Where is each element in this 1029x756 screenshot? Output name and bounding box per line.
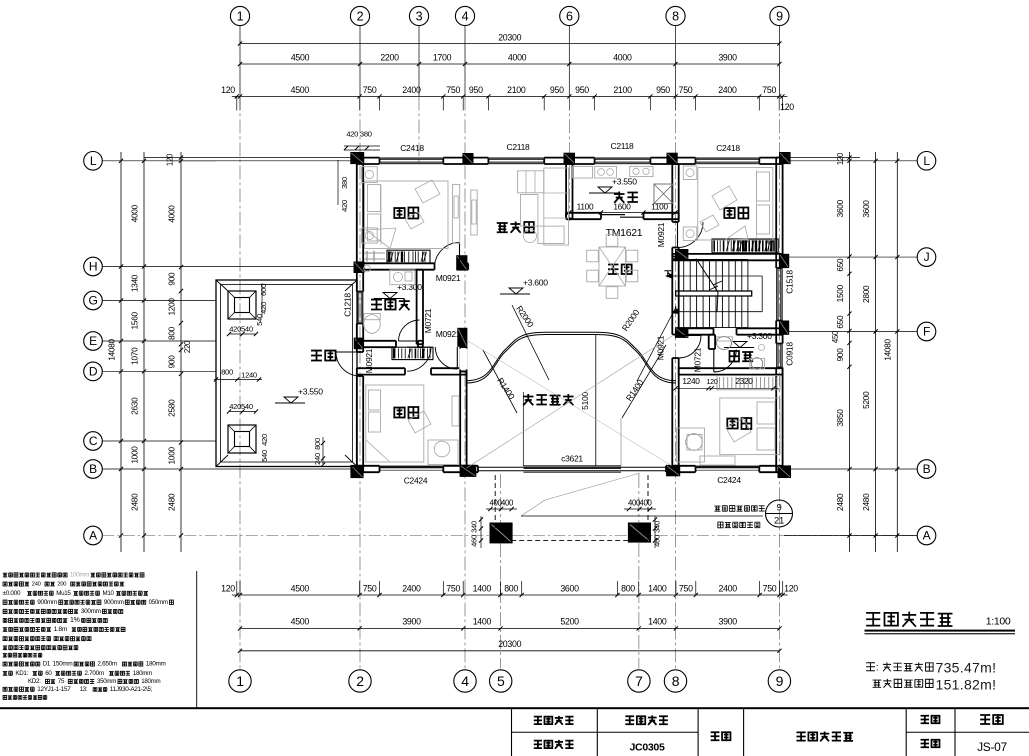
svg-text:1%: 1% xyxy=(70,617,80,624)
svg-text:220: 220 xyxy=(183,340,192,353)
svg-text:380: 380 xyxy=(340,177,349,189)
svg-text:c3621: c3621 xyxy=(561,454,583,464)
svg-text:A: A xyxy=(923,529,931,543)
svg-text:2.700m: 2.700m xyxy=(84,670,104,677)
svg-text:14080: 14080 xyxy=(107,339,117,361)
svg-text:420: 420 xyxy=(260,434,269,446)
svg-text:4000: 4000 xyxy=(613,53,632,63)
svg-text:240: 240 xyxy=(32,582,41,588)
svg-text:M0721: M0721 xyxy=(693,347,703,372)
svg-text:4: 4 xyxy=(461,673,469,689)
svg-text:2580: 2580 xyxy=(167,399,177,417)
svg-text:460: 460 xyxy=(470,535,479,547)
svg-text:400: 400 xyxy=(501,499,514,508)
svg-text:4000: 4000 xyxy=(508,53,527,63)
svg-text:B: B xyxy=(89,462,97,476)
svg-text:M0921: M0921 xyxy=(364,348,374,373)
svg-text:2100: 2100 xyxy=(613,85,632,95)
svg-text:150mm: 150mm xyxy=(53,661,73,668)
svg-text:4500: 4500 xyxy=(291,85,310,95)
svg-text:1400: 1400 xyxy=(648,617,667,627)
svg-text:1500: 1500 xyxy=(835,284,845,302)
svg-text:KD1:: KD1: xyxy=(15,670,28,677)
svg-text:300mm: 300mm xyxy=(81,608,101,615)
svg-text:1100: 1100 xyxy=(577,202,594,212)
svg-text:120: 120 xyxy=(221,85,235,95)
svg-text:1:100: 1:100 xyxy=(986,616,1011,628)
svg-text:800: 800 xyxy=(221,368,233,377)
svg-text:8: 8 xyxy=(672,9,679,23)
svg-text:C: C xyxy=(89,434,98,448)
svg-text:C0918: C0918 xyxy=(785,342,795,366)
svg-text:1600: 1600 xyxy=(613,202,631,212)
svg-text:2480: 2480 xyxy=(167,493,177,511)
svg-text:2.650m: 2.650m xyxy=(97,661,117,668)
svg-text:C2418: C2418 xyxy=(716,143,740,153)
svg-text:60: 60 xyxy=(45,670,52,677)
svg-text:120: 120 xyxy=(836,152,845,165)
svg-text:C2424: C2424 xyxy=(717,475,741,485)
svg-text:TM1621: TM1621 xyxy=(606,227,643,239)
svg-text:D: D xyxy=(89,365,98,379)
svg-text:735.47m!: 735.47m! xyxy=(936,660,997,676)
svg-text:750: 750 xyxy=(446,584,460,594)
svg-text:3600: 3600 xyxy=(835,199,845,217)
svg-text:650: 650 xyxy=(835,315,845,329)
svg-text:800: 800 xyxy=(167,326,177,340)
svg-text:75: 75 xyxy=(58,678,65,685)
svg-text:950: 950 xyxy=(656,85,670,95)
svg-text:1: 1 xyxy=(236,673,244,689)
svg-text:B: B xyxy=(923,462,931,476)
svg-text:F: F xyxy=(923,325,930,339)
svg-text:JS-07: JS-07 xyxy=(977,740,1007,754)
svg-text:1: 1 xyxy=(237,9,244,23)
svg-text:13:: 13: xyxy=(80,687,88,693)
svg-text:600: 600 xyxy=(259,284,268,296)
svg-text:±0.000: ±0.000 xyxy=(3,590,21,597)
svg-text:750: 750 xyxy=(762,85,776,95)
svg-text:14080: 14080 xyxy=(883,339,893,361)
svg-text:1070: 1070 xyxy=(130,347,140,365)
svg-text:420: 420 xyxy=(259,302,268,314)
svg-text:1400: 1400 xyxy=(648,584,667,594)
svg-text:C2418: C2418 xyxy=(400,143,424,153)
svg-text:2: 2 xyxy=(356,673,364,689)
svg-text:450: 450 xyxy=(831,330,840,343)
svg-text:340: 340 xyxy=(470,521,479,533)
svg-text:750: 750 xyxy=(446,85,460,95)
svg-text:800: 800 xyxy=(504,584,518,594)
svg-text:2200: 2200 xyxy=(380,53,399,63)
svg-text:C1518: C1518 xyxy=(785,270,795,294)
svg-text:12YJ1-1-157: 12YJ1-1-157 xyxy=(37,686,71,693)
svg-text:2320: 2320 xyxy=(735,376,753,386)
svg-text:120: 120 xyxy=(706,377,717,386)
svg-text:120: 120 xyxy=(780,102,794,112)
svg-text:2480: 2480 xyxy=(835,493,845,511)
svg-text:750: 750 xyxy=(363,584,377,594)
svg-text:151.82m!: 151.82m! xyxy=(936,677,997,693)
svg-text:120: 120 xyxy=(166,153,175,166)
svg-text:1240: 1240 xyxy=(682,376,700,386)
svg-text:5: 5 xyxy=(497,673,505,689)
svg-text:800: 800 xyxy=(621,584,635,594)
svg-text:7: 7 xyxy=(635,673,643,689)
svg-text:M0921: M0921 xyxy=(656,222,666,247)
svg-text:C1218: C1218 xyxy=(343,293,353,317)
svg-text:20300: 20300 xyxy=(498,33,521,43)
svg-text:M0721: M0721 xyxy=(423,308,433,333)
svg-text:8: 8 xyxy=(672,673,680,689)
svg-text:6: 6 xyxy=(566,9,573,23)
svg-text:4000: 4000 xyxy=(130,204,140,222)
svg-text:1000: 1000 xyxy=(130,446,140,464)
svg-text:750: 750 xyxy=(679,584,693,594)
svg-text:900: 900 xyxy=(167,355,177,369)
svg-text:2100: 2100 xyxy=(507,85,526,95)
svg-text:M0921: M0921 xyxy=(436,273,461,283)
svg-text:4000: 4000 xyxy=(167,205,177,223)
svg-text:H: H xyxy=(89,260,97,274)
svg-text:Mu15: Mu15 xyxy=(56,590,71,597)
svg-text:180mm: 180mm xyxy=(146,661,166,668)
svg-text:240: 240 xyxy=(313,453,322,465)
svg-text:E: E xyxy=(89,334,97,348)
svg-text:2400: 2400 xyxy=(402,584,421,594)
svg-text:180mm: 180mm xyxy=(141,678,160,685)
svg-text:2: 2 xyxy=(357,9,364,23)
svg-text:2480: 2480 xyxy=(861,493,871,511)
svg-text:750: 750 xyxy=(763,584,777,594)
svg-text:L: L xyxy=(90,154,97,168)
svg-text:3900: 3900 xyxy=(719,617,738,627)
svg-text:5200: 5200 xyxy=(861,391,871,409)
svg-text:650: 650 xyxy=(835,258,845,272)
svg-text:3600: 3600 xyxy=(560,584,579,594)
svg-text:540: 540 xyxy=(255,314,264,326)
svg-text:5200: 5200 xyxy=(560,617,579,627)
svg-text:950: 950 xyxy=(575,85,589,95)
svg-text:2400: 2400 xyxy=(402,85,421,95)
svg-text:4500: 4500 xyxy=(291,617,310,627)
svg-text:3: 3 xyxy=(416,9,423,23)
svg-text:21: 21 xyxy=(774,516,784,527)
svg-text:C2118: C2118 xyxy=(611,141,634,151)
svg-text:9: 9 xyxy=(776,673,784,689)
svg-text:420 380: 420 380 xyxy=(346,130,371,139)
svg-text:3600: 3600 xyxy=(861,200,871,218)
svg-text:120: 120 xyxy=(221,584,235,594)
svg-text:9: 9 xyxy=(776,9,783,23)
svg-text:11J930-A21-2\5;: 11J930-A21-2\5; xyxy=(110,686,153,693)
svg-text:+3.600: +3.600 xyxy=(523,278,548,288)
svg-text:350mm: 350mm xyxy=(97,678,116,685)
svg-text:950: 950 xyxy=(469,85,483,95)
svg-text:2630: 2630 xyxy=(130,397,140,415)
svg-text:1.8m: 1.8m xyxy=(54,626,68,633)
svg-text:4500: 4500 xyxy=(291,584,310,594)
svg-text:KD2:: KD2: xyxy=(28,678,41,685)
svg-text:900mm: 900mm xyxy=(37,599,57,606)
svg-text::: : xyxy=(876,662,879,674)
svg-text:180mm: 180mm xyxy=(133,670,152,677)
svg-text:050mm: 050mm xyxy=(149,599,168,606)
svg-text:4500: 4500 xyxy=(291,53,310,63)
svg-text:750: 750 xyxy=(679,85,693,95)
svg-text:4: 4 xyxy=(462,9,469,23)
svg-text:M0921: M0921 xyxy=(436,329,461,339)
svg-text:JC0305: JC0305 xyxy=(630,742,665,754)
svg-text:750: 750 xyxy=(363,85,377,95)
svg-text:1200: 1200 xyxy=(167,298,177,316)
svg-text:2400: 2400 xyxy=(718,85,737,95)
svg-text:2800: 2800 xyxy=(861,285,871,303)
svg-text:3850: 3850 xyxy=(835,409,845,427)
svg-text:1340: 1340 xyxy=(130,274,140,292)
svg-text:100mm: 100mm xyxy=(70,572,89,579)
svg-text:C2118: C2118 xyxy=(507,142,530,152)
svg-text:L: L xyxy=(923,154,930,168)
svg-text:1400: 1400 xyxy=(473,584,492,594)
svg-text:1240: 1240 xyxy=(241,371,257,380)
svg-text:900mm: 900mm xyxy=(104,599,124,606)
svg-text:G: G xyxy=(88,294,97,308)
svg-text:420540: 420540 xyxy=(229,402,253,411)
svg-text:900: 900 xyxy=(167,272,177,286)
svg-text:3900: 3900 xyxy=(718,53,737,63)
svg-text:2480: 2480 xyxy=(130,493,140,511)
svg-text:950: 950 xyxy=(550,85,564,95)
svg-text:3900: 3900 xyxy=(402,617,421,627)
svg-text:C2424: C2424 xyxy=(404,476,428,486)
svg-text:420: 420 xyxy=(340,200,349,212)
svg-text:200: 200 xyxy=(57,582,66,588)
svg-text:540: 540 xyxy=(260,450,269,462)
svg-text:400: 400 xyxy=(639,499,652,508)
svg-text:J: J xyxy=(924,250,930,264)
svg-text:20300: 20300 xyxy=(498,639,521,649)
svg-text:1000: 1000 xyxy=(167,446,177,464)
svg-text:2400: 2400 xyxy=(719,584,738,594)
svg-text:D1: D1 xyxy=(43,661,51,668)
svg-text:800: 800 xyxy=(313,438,322,450)
svg-text:1700: 1700 xyxy=(433,53,452,63)
svg-text:1400: 1400 xyxy=(473,617,492,627)
svg-text:A: A xyxy=(89,529,97,543)
svg-text:+3.300: +3.300 xyxy=(747,331,772,341)
svg-text:420540: 420540 xyxy=(229,325,253,334)
svg-text:1560: 1560 xyxy=(130,311,140,329)
svg-text:M10: M10 xyxy=(103,590,115,597)
svg-text:120: 120 xyxy=(784,584,798,594)
svg-text:+3.550: +3.550 xyxy=(298,387,323,397)
svg-text:+3.300: +3.300 xyxy=(397,282,422,292)
svg-text:9: 9 xyxy=(777,503,782,514)
svg-text:900: 900 xyxy=(835,348,845,362)
